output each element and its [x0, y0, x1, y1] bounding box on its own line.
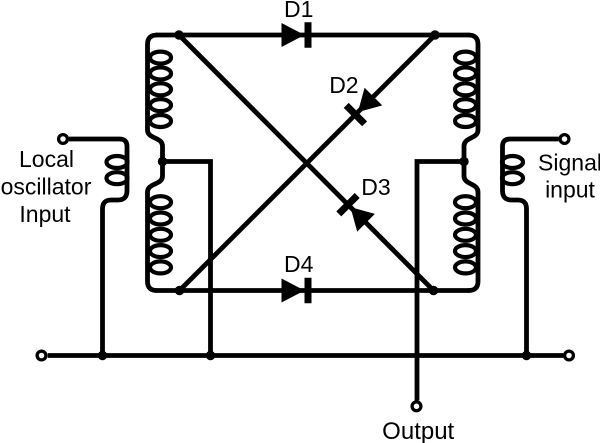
- label: Local oscillator Input: [1, 146, 92, 227]
- svg-text:Signal: Signal: [538, 150, 600, 176]
- diode D4 (bottom rail, pointing right): [282, 278, 312, 304]
- inductor: T2 lower secondary winding (5 loops): [455, 196, 476, 273]
- wire: bottom rail of diode ring: [156, 288, 470, 293]
- wire: signal input lead through primary coil down to ground rail: [503, 139, 559, 356]
- wire: local oscillator input lead through primary coil down to ground rail: [69, 139, 127, 356]
- inductor: T1 primary (local oscillator coil, 2 loops): [107, 156, 128, 184]
- wire: T2 center tap down to output terminal: [417, 162, 464, 401]
- inductor: T1 upper secondary winding (5 loops): [150, 52, 171, 127]
- junction dot: bottom-left ring node: [175, 286, 184, 295]
- wire: diagonal from bottom-left node to top-right node (through D2): [180, 35, 436, 291]
- svg-text:Input: Input: [19, 201, 71, 227]
- svg-text:D4: D4: [284, 251, 314, 277]
- terminal: signal input: [560, 135, 569, 144]
- junction dot: LO coil to ground rail: [98, 351, 107, 360]
- wire: transformer T2 secondary right side (top corner, winding line, center-tap jog): [464, 35, 478, 291]
- inductor: T2 primary (signal coil, 2 loops): [502, 156, 523, 184]
- terminal: output: [412, 402, 421, 411]
- inductor: T1 lower secondary winding (5 loops): [150, 196, 171, 273]
- svg-text:D2: D2: [329, 72, 358, 98]
- svg-text:input: input: [545, 177, 595, 203]
- diode D1 (top rail, pointing right): [282, 22, 312, 48]
- svg-text:D1: D1: [284, 0, 313, 22]
- svg-text:Output: Output: [382, 418, 454, 443]
- terminal: ground rail left end: [37, 351, 46, 360]
- wire: top rail of diode ring: [156, 33, 470, 38]
- diode D2 (on rising diagonal, pointing down-left): [344, 87, 383, 126]
- wire: ground rail (bottom horizontal bus): [48, 353, 564, 358]
- inductor: T2 upper secondary winding (5 loops): [455, 52, 476, 127]
- wire: T1 center tap to ground rail: [163, 162, 211, 356]
- label: Signal input: [538, 150, 600, 203]
- wire: diagonal from top-left node to bottom-right node (through D3): [179, 35, 434, 291]
- terminal: ground rail right end: [565, 351, 574, 360]
- svg-text:oscillator: oscillator: [1, 173, 92, 199]
- junction dot: top-left ring node: [174, 30, 183, 39]
- diode D3 (on falling diagonal, pointing up-left): [336, 193, 375, 232]
- junction dot: top-right ring node: [430, 30, 439, 39]
- junction dot: T1 center tap lead to ground rail: [206, 351, 215, 360]
- junction dot: signal coil to ground rail: [522, 351, 531, 360]
- terminal: local oscillator input: [59, 135, 68, 144]
- svg-text:D3: D3: [361, 174, 390, 200]
- junction dot: T2 center tap: [459, 157, 468, 166]
- svg-text:Local: Local: [19, 146, 74, 172]
- junction dot: T1 center tap: [158, 157, 167, 166]
- junction dot: bottom-right ring node: [429, 286, 438, 295]
- wire: transformer T1 secondary left side (top corner, winding line, center-tap jog): [148, 35, 163, 291]
